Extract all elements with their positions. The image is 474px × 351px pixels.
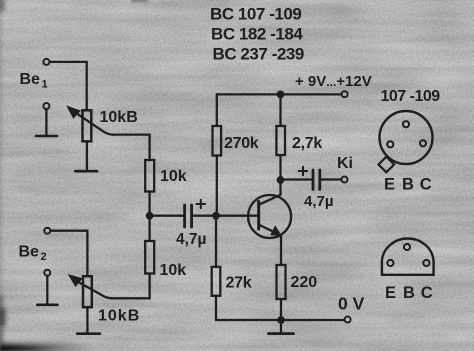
wire base node to transistor [219, 215, 259, 217]
terminal Be2 ground side [44, 270, 50, 276]
package TO-18 pin C [420, 140, 426, 146]
ground Be2 [37, 276, 57, 305]
capacitor C2 4,7µ output [284, 170, 342, 190]
polarity plus C2 [299, 167, 307, 175]
node base junction [213, 212, 220, 219]
package TO-18 tab [379, 157, 395, 173]
scan artifact: bottom edge dark streak [0, 343, 95, 351]
potentiometer P2 10kB body [83, 276, 92, 307]
wire P2 to ground [86, 307, 88, 333]
ground P1 [75, 170, 97, 173]
0V rail [216, 319, 344, 321]
package TO-18 case 107-109 [380, 111, 433, 164]
capacitor C1 4,7µ [153, 205, 216, 227]
resistor R3 270k [213, 126, 222, 156]
node mixing junction [146, 212, 153, 219]
node collector junction [277, 177, 284, 184]
scan artifact: top edge dash [131, 0, 148, 2]
wire R3 to base node [216, 156, 218, 213]
package TO-92 pin E [387, 260, 393, 266]
terminal +9V..+12V [342, 91, 348, 97]
scan artifact: left edge shading [0, 0, 2, 351]
potentiometer P1 wiper arrow [68, 107, 113, 135]
potentiometer P1 10kB body [83, 110, 92, 141]
supply rail +9V..+12V [217, 93, 342, 95]
package TO-18 pin B [403, 121, 409, 127]
wire Be1 to potentiometer P1 [50, 62, 87, 110]
wire P2 wiper to R2 [112, 274, 150, 299]
wire R6 to 0V rail [280, 299, 282, 320]
wire Be2 to potentiometer P2 [51, 231, 88, 276]
resistor R1 10k [145, 160, 154, 192]
wire 270k branch from rail [216, 94, 218, 126]
scan artifact: left edge blotch [0, 308, 6, 326]
package TO-92 pin C [423, 260, 429, 266]
potentiometer P2 wiper arrow [69, 275, 112, 298]
scan artifact: left edge dark strip [0, 295, 3, 351]
scan artifact: bottom edge dark streak core [0, 346, 55, 351]
node 0V junction [278, 317, 285, 324]
ground Be1 [36, 109, 57, 136]
wire R5 to collector node [279, 155, 281, 180]
polarity plus C1 [197, 200, 206, 208]
terminal Be1 ground side [43, 103, 49, 109]
wire P1 wiper to R1 [112, 135, 150, 160]
wire R1 to mixing node [148, 192, 150, 242]
terminal Be1 hot [43, 59, 49, 65]
scan artifact: top-left corner mark [0, 0, 5, 11]
package TO-18 pin E [387, 141, 393, 147]
terminal Ki output [342, 177, 348, 183]
transistor Q1 circle [248, 195, 291, 238]
wire P1 to ground [86, 141, 88, 170]
package TO-92 pin B [404, 244, 410, 250]
transistor Q1 collector [259, 180, 281, 205]
ground 0V rail [269, 320, 294, 334]
wire base node to R4 [215, 219, 217, 267]
transistor Q1 emitter with arrow [259, 225, 281, 265]
resistor R5 2,7k [276, 126, 285, 155]
package TO-92 case [382, 238, 434, 274]
transistor Q1 base bar [257, 202, 260, 230]
node rail junction [277, 91, 284, 98]
wire 2,7k branch from rail [279, 94, 281, 126]
terminal 0V [345, 317, 351, 323]
resistor R4 27k [212, 267, 221, 296]
wire R4 to 0V rail [215, 296, 217, 320]
resistor R2 10k [145, 241, 154, 274]
terminal Be2 hot [44, 228, 50, 234]
resistor R6 220 [277, 265, 286, 299]
ground P2 [77, 332, 100, 335]
